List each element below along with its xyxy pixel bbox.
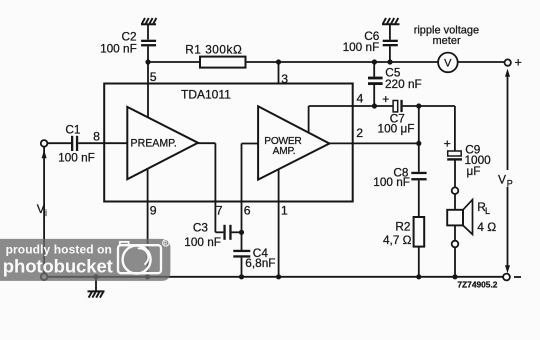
svg-text:P: P (507, 179, 513, 189)
svg-text:TDA1011: TDA1011 (181, 88, 231, 102)
svg-text:C1: C1 (65, 123, 80, 137)
svg-text:C3: C3 (193, 221, 209, 235)
svg-text:R: R (164, 241, 168, 247)
svg-text:R1 300kΩ: R1 300kΩ (185, 43, 242, 57)
svg-text:μF: μF (467, 164, 481, 178)
svg-text:PREAMP.: PREAMP. (131, 137, 177, 149)
svg-text:8: 8 (93, 130, 100, 144)
svg-text:100 μF: 100 μF (378, 121, 415, 135)
svg-text:5: 5 (150, 70, 157, 84)
svg-text:L: L (485, 206, 490, 216)
svg-text:100 nF: 100 nF (373, 175, 410, 189)
svg-text:2: 2 (356, 126, 363, 140)
svg-text:7Z74905.2: 7Z74905.2 (457, 280, 497, 290)
svg-text:meter: meter (433, 35, 461, 47)
svg-text:+: + (515, 55, 522, 69)
svg-text:i: i (45, 208, 47, 218)
svg-text:+: + (444, 136, 451, 150)
svg-text:7: 7 (216, 203, 223, 217)
svg-text:100 nF: 100 nF (343, 40, 380, 54)
svg-text:AMP.: AMP. (273, 146, 296, 157)
svg-text:6,8nF: 6,8nF (245, 256, 275, 270)
svg-text:1: 1 (281, 203, 288, 217)
svg-text:6: 6 (244, 203, 251, 217)
svg-text:4 Ω: 4 Ω (477, 220, 496, 234)
svg-text:100 nF: 100 nF (100, 41, 137, 55)
svg-text:3: 3 (281, 72, 288, 86)
svg-text:+: + (382, 92, 389, 106)
svg-text:V: V (444, 57, 452, 69)
svg-text:4,7 Ω: 4,7 Ω (383, 233, 412, 247)
svg-text:4: 4 (357, 92, 364, 106)
svg-text:100 nF: 100 nF (184, 235, 221, 249)
svg-text:9: 9 (150, 203, 157, 217)
svg-text:photobucket: photobucket (3, 255, 113, 276)
svg-text:V: V (498, 172, 506, 186)
svg-text:100 nF: 100 nF (58, 151, 95, 165)
svg-text:R2: R2 (395, 220, 410, 234)
svg-text:220 nF: 220 nF (385, 77, 422, 91)
svg-text:V: V (37, 202, 45, 216)
